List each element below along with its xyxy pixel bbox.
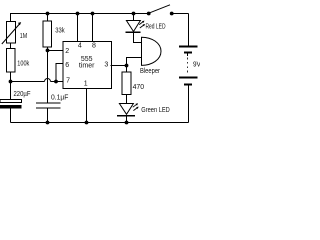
- svg-text:Bleeper: Bleeper: [140, 68, 161, 75]
- svg-text:8: 8: [92, 42, 96, 49]
- svg-text:Red LED: Red LED: [146, 24, 166, 31]
- svg-text:1: 1: [84, 80, 88, 87]
- svg-text:3: 3: [104, 62, 108, 69]
- svg-text:470: 470: [133, 84, 145, 91]
- svg-text:Green LED: Green LED: [141, 107, 170, 114]
- svg-text:100k: 100k: [17, 61, 29, 68]
- svg-text:4: 4: [78, 43, 82, 50]
- svg-text:33k: 33k: [55, 27, 65, 34]
- svg-text:2: 2: [65, 48, 69, 55]
- svg-text:1M: 1M: [20, 33, 28, 40]
- svg-text:timer: timer: [79, 62, 95, 69]
- svg-text:9V: 9V: [193, 62, 200, 69]
- svg-text:7: 7: [66, 78, 70, 85]
- svg-text:220µF: 220µF: [14, 91, 31, 98]
- svg-text:0.1µF: 0.1µF: [51, 94, 68, 101]
- svg-text:6: 6: [65, 62, 69, 69]
